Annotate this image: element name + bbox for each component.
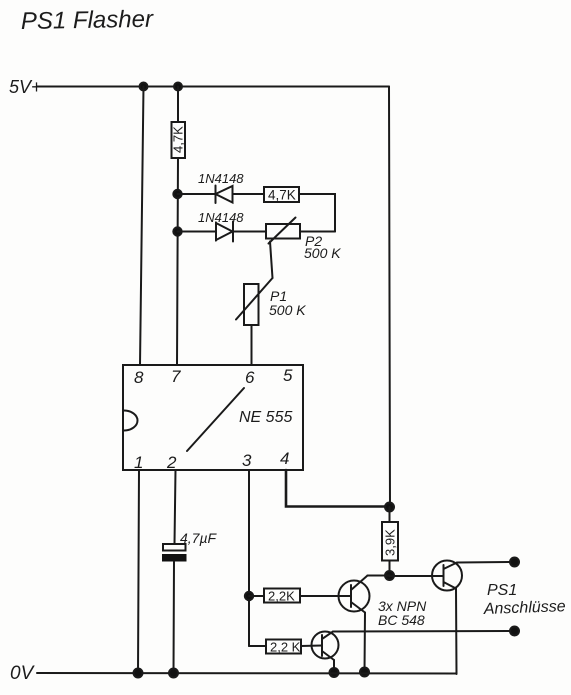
node junction pin4 / 3,9K [385, 503, 394, 512]
pin number 3 [242, 451, 252, 470]
svg-text:2,2K: 2,2K [268, 589, 295, 604]
wire NE555 pin 4 to right vertical [286, 470, 389, 507]
terminal PS1 lower [510, 627, 519, 636]
wire resistor 4,7K right to corner [299, 194, 335, 232]
resistor 4,7K (horizontal) [264, 187, 299, 203]
resistor 2,2K (upper) [264, 589, 300, 604]
svg-text:6: 6 [245, 368, 255, 387]
transistor Q1 (lower, BC548) [312, 632, 339, 661]
wire resistor 3,9K to junction [389, 561, 391, 576]
wire Q3 collector to PS1 terminal (upper) [457, 561, 514, 564]
wire Q2 emitter to 0V rail [364, 613, 367, 673]
resistor 3,9K [382, 522, 398, 561]
pin number 4 [280, 449, 289, 468]
pin number 2 [166, 453, 177, 472]
terminal PS1 upper [510, 558, 519, 567]
svg-text:4,7µF: 4,7µF [180, 530, 218, 546]
wire resistor 2,2K lower to Q1 base [301, 645, 322, 648]
node junction 3,9K / Q2 collector / Q3 base [385, 571, 394, 580]
svg-text:PS1 Flasher: PS1 Flasher [21, 6, 155, 35]
wire NE555 pin 2 to capacitor [175, 470, 176, 544]
svg-text:4,7K: 4,7K [171, 126, 186, 153]
node junction capacitor / 0V [169, 669, 178, 678]
wire Q1 emitter to 0V rail [333, 660, 335, 673]
diode D2 1N4148 (cathode right) [198, 210, 244, 242]
resistor 4,7K (vertical, top) [171, 122, 186, 158]
wire 0V rail [37, 672, 457, 675]
pin number 8 [134, 368, 144, 387]
svg-text:1N4148: 1N4148 [198, 210, 244, 225]
potentiometer P2 500K [266, 218, 341, 262]
pin number 5 [283, 366, 293, 385]
wire NE555 pin 1 to 0V rail [138, 470, 139, 673]
wire junction to diode D2 [178, 231, 217, 233]
wire junction right to Q3 base [390, 575, 444, 577]
svg-text:3: 3 [242, 451, 252, 470]
wire capacitor to 0V rail [173, 562, 176, 674]
svg-text:8: 8 [134, 368, 144, 387]
svg-text:3,9K: 3,9K [383, 529, 398, 556]
transistor Q3 (upper right, BC548) [432, 561, 462, 591]
node junction Q2 emitter / 0V [360, 668, 369, 677]
wire 5V+ rail [37, 86, 389, 88]
wire potentiometer P2 right to corner [300, 231, 335, 233]
label 3x NPN BC548 [378, 598, 427, 628]
node junction pin1 / 0V [134, 669, 143, 678]
wire diode D1 to resistor 4,7K [233, 193, 265, 195]
capacitor C1 4,7uF [162, 530, 218, 562]
node junction 5V/pin8 branch [140, 83, 148, 91]
wire junction to diode D1 [178, 193, 216, 195]
net 0V label [10, 663, 36, 684]
svg-text:4,7K: 4,7K [268, 188, 296, 203]
svg-text:5: 5 [283, 366, 293, 385]
wire resistor 4,7K to NE555 pin 7 with diode taps [177, 158, 178, 365]
svg-text:500 K: 500 K [304, 245, 341, 261]
wire P2 wiper down to P1 wiper [270, 242, 273, 279]
svg-text:2,2 K: 2,2 K [270, 640, 301, 655]
wire Q1 collector to PS1 terminal (lower) [333, 630, 514, 633]
wire junction to resistor 2,2K upper [249, 595, 264, 597]
transistor Q2 (middle, BC548) [339, 576, 370, 613]
node junction diode D2 row [173, 227, 181, 235]
pin number 1 [134, 453, 143, 472]
svg-text:1N4148: 1N4148 [198, 171, 244, 186]
wire diode D2 to potentiometer P2 [233, 231, 266, 233]
net 5V+ label [9, 77, 42, 97]
wire potentiometer P1 to NE555 pin 6 [251, 325, 253, 365]
wire right vertical from 5V rail to pin4 junction [389, 87, 390, 508]
wire resistor 2,2K upper to Q2 base [300, 595, 351, 597]
node junction diode D1 row [173, 190, 181, 198]
node junction Q1 emitter / 0V [330, 668, 339, 677]
wire NE555 pin 3 down [248, 470, 250, 646]
pin number 6 [245, 368, 255, 387]
svg-text:PS1: PS1 [487, 582, 517, 599]
wire junction left to Q2 collector [368, 575, 390, 577]
wire 5V to resistor 4,7K top [177, 87, 179, 123]
svg-text:Anschlüsse: Anschlüsse [483, 598, 566, 618]
node junction 5V/4,7K branch [174, 83, 182, 91]
svg-text:4: 4 [280, 449, 289, 468]
label PS1 Anschluesse [483, 582, 566, 618]
diode D1 1N4148 (cathode left) [198, 171, 244, 203]
pin number 7 [171, 367, 181, 386]
wire junction to resistor 3,9K [389, 507, 391, 522]
svg-text:0V: 0V [10, 663, 36, 684]
title PS1 Flasher [21, 6, 155, 35]
op-amp/timer IC U1 NE555 [123, 365, 303, 470]
node junction pin3 / 2,2K upper [245, 592, 253, 600]
svg-text:NE 555: NE 555 [239, 409, 292, 426]
svg-text:BC 548: BC 548 [378, 612, 425, 628]
wire pin3 corner to resistor 2,2K lower [249, 645, 266, 647]
potentiometer P1 500K [236, 278, 306, 325]
wire 5V to NE555 pin 8 [140, 87, 144, 366]
svg-text:500 K: 500 K [269, 302, 306, 318]
wire Q3 emitter down to 0V rail end [455, 589, 458, 675]
svg-text:7: 7 [171, 367, 181, 386]
resistor 2,2K (lower) [266, 640, 301, 655]
